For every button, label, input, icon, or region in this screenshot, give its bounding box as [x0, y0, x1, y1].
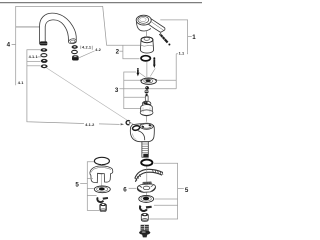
wire spout tick	[16, 26, 40, 28]
body shank	[142, 142, 148, 157]
svg-text:1: 1	[192, 34, 196, 41]
wire 4.2 leader	[79, 51, 94, 58]
washer A3	[41, 59, 48, 63]
bead	[145, 86, 149, 90]
ring A4	[41, 64, 48, 68]
nut on spout shank	[40, 41, 47, 45]
wire lever-to-dome link	[145, 30, 147, 36]
wire right bracket 5	[149, 163, 177, 219]
svg-text:4.1.2: 4.1.2	[85, 122, 95, 127]
clamp part left	[101, 164, 103, 186]
wire dome center line	[146, 62, 148, 77]
socket ring node	[126, 121, 130, 125]
wire leader 4.1.2	[27, 50, 84, 124]
label 4.2.1 with brackets	[80, 46, 82, 49]
capsule	[145, 90, 149, 94]
wire bracket 3	[124, 72, 141, 109]
svg-text:6: 6	[123, 186, 127, 193]
screw S2 with arrow	[137, 68, 139, 70]
cartridge stem	[145, 96, 148, 102]
svg-text:5: 5	[75, 182, 79, 189]
wave washer right	[135, 169, 163, 178]
capsule right	[141, 214, 148, 220]
washer B1 under outlet	[72, 45, 78, 49]
svg-text:3: 3	[115, 87, 119, 94]
wire ticks 4.1.1	[38, 56, 41, 58]
nut 6	[143, 182, 152, 186]
body collar	[140, 123, 153, 129]
nut B3	[72, 56, 79, 60]
plug bottom	[141, 225, 149, 233]
washer A1	[41, 48, 48, 52]
dot	[146, 94, 148, 96]
cartridge body	[141, 105, 153, 116]
top rule	[0, 2, 202, 4]
wire bracket 1	[160, 20, 187, 54]
washer right	[139, 195, 154, 202]
svg-text:4: 4	[7, 41, 11, 48]
svg-text:5: 5	[185, 187, 189, 194]
svg-text:4.1.1: 4.1.1	[29, 54, 39, 59]
o-ring mount	[141, 160, 152, 166]
screw S1 with arrow	[153, 57, 155, 59]
svg-text:2: 2	[116, 49, 120, 56]
wire bracket 2	[123, 45, 140, 59]
wire cartridge-to-body	[146, 116, 148, 122]
o-ring left	[94, 157, 109, 164]
wire group-4 outline box	[16, 6, 140, 85]
svg-text:4.2: 4.2	[95, 47, 101, 52]
washer left	[94, 186, 110, 193]
wire screw leaders	[139, 72, 146, 77]
svg-text:4.1: 4.1	[18, 80, 24, 85]
wire diagonal to body socket	[47, 68, 134, 124]
svg-text:4.2.1: 4.2.1	[82, 45, 92, 50]
o-ring B2	[72, 50, 78, 53]
label 1.1	[178, 50, 187, 55]
hook clip right	[140, 206, 147, 211]
svg-text:1.1: 1.1	[179, 51, 185, 56]
spout (part 4)	[40, 13, 77, 44]
wire left bracket 5	[87, 162, 99, 211]
o-ring 2b	[141, 56, 150, 61]
dome cap	[140, 37, 153, 53]
wire nut-to-washer	[145, 193, 147, 196]
spout outlet mouth	[68, 38, 77, 44]
hook clip left	[97, 197, 103, 202]
lever handle (part 1)	[148, 18, 165, 33]
capsule left	[100, 204, 107, 210]
flange ring (part 3a)	[141, 78, 156, 84]
screw 1.1	[160, 34, 168, 43]
wire leader 1.1 to parts	[175, 54, 177, 89]
cartridge knob	[142, 101, 151, 106]
faucet body	[130, 124, 154, 142]
o-ring A2	[41, 54, 47, 57]
body socket hole	[132, 125, 140, 131]
